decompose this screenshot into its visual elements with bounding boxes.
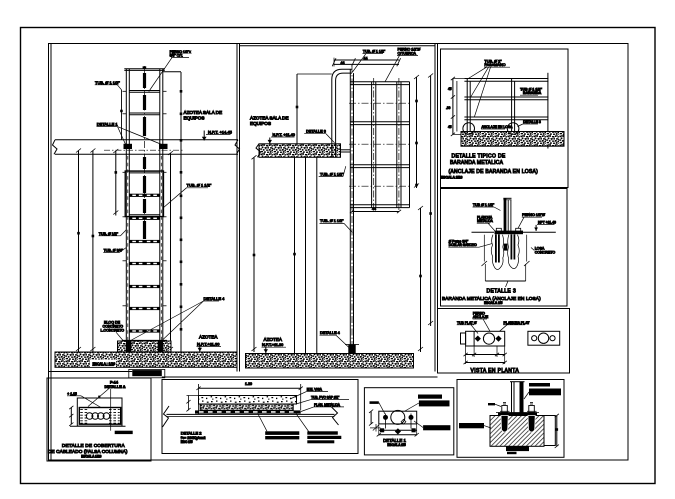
baranda post 1: [466, 79, 468, 132]
svg-text:C/TUERCA: C/TUERCA: [398, 51, 417, 55]
cables: [86, 413, 93, 420]
svg-text:1.20: 1.20: [245, 382, 252, 386]
steel deck band E: [195, 410, 301, 413]
dim bottom B: [485, 280, 525, 282]
box E frame: [162, 380, 358, 454]
svg-text:DETALLE 3: DETALLE 3: [306, 130, 326, 134]
svg-text:DOBLAR GANCHO: DOBLAR GANCHO: [449, 243, 478, 247]
svg-text:TUB Ø 1 1/2": TUB Ø 1 1/2": [473, 203, 495, 207]
base line D: [70, 425, 126, 427]
wall hatch left: [80, 410, 88, 424]
cover inner heavy rect: [79, 408, 120, 425]
grid vertical member 2: [396, 82, 398, 208]
ladder right rail: [159, 69, 161, 352]
svg-text:.90: .90: [446, 106, 451, 110]
svg-text:N.P.T.+11.30: N.P.T.+11.30: [197, 341, 220, 346]
baseplate B: [495, 231, 524, 235]
wall lines below slab: [294, 157, 296, 353]
dim x416: [416, 77, 418, 188]
baranda right end post: [547, 73, 549, 149]
svg-text:EQUIPOS: EQUIPOS: [250, 121, 271, 126]
MIDDLE PANEL: [240, 46, 436, 368]
clamp right: [159, 144, 168, 149]
scale note backing: [90, 360, 116, 368]
svg-text:TUB. Ø 1/2": TUB. Ø 1/2": [99, 232, 119, 236]
baranda rail 2: [464, 96, 548, 98]
svg-text:TUB. Ø 1 1/2": TUB. Ø 1 1/2": [95, 80, 120, 85]
box A frame: [441, 49, 569, 188]
label vol D: [115, 431, 133, 434]
svg-text:DETALLE Δ: DETALLE Δ: [105, 385, 126, 389]
elevacion title: [129, 369, 165, 377]
left bar G: [459, 423, 484, 428]
post B: [504, 199, 507, 232]
left dim of pipe: [296, 74, 298, 144]
bolt right G: [528, 416, 535, 433]
concrete plinth block: [118, 341, 172, 352]
dim line x170: [170, 153, 172, 352]
grout cone right: [508, 235, 517, 269]
level B: [535, 225, 537, 231]
right break E: [332, 407, 339, 425]
ladder rail vertical: [349, 69, 351, 353]
plate F: [379, 411, 417, 424]
svg-text:DETALLE 3: DETALLE 3: [487, 288, 517, 294]
ladder foot left: [126, 340, 131, 351]
svg-text:PLAN. METALICA: PLAN. METALICA: [314, 403, 341, 407]
box G frame: [457, 380, 564, 458]
baranda post 2: [511, 79, 513, 132]
rail foot: [348, 345, 355, 354]
rail centerline dash-dot: [351, 66, 353, 354]
concrete block G: [490, 416, 544, 447]
svg-text:45: 45: [448, 87, 452, 91]
panel divider left/middle: [236, 44, 238, 372]
nut right: [516, 228, 521, 231]
svg-text:TUB. PVC SAP Ø1": TUB. PVC SAP Ø1": [311, 396, 339, 400]
svg-text:N.P.T. +11.40: N.P.T. +11.40: [273, 133, 295, 137]
panel divider middle/right: [434, 44, 436, 372]
floor line B: [472, 231, 495, 233]
svg-text:EJE. VIGA: EJE. VIGA: [307, 388, 323, 392]
left dim x254: [253, 157, 255, 352]
svg-text:AZOTEA SALA DE: AZOTEA SALA DE: [184, 110, 223, 115]
bolt right: [510, 234, 512, 259]
slab top line: [55, 139, 238, 141]
center label bar E: [265, 431, 299, 435]
slab left break: [53, 140, 58, 155]
anchor circle 1: [463, 123, 475, 135]
horizontal divider above bottom row (right of title): [162, 376, 438, 378]
LEFT PANEL: [53, 50, 240, 378]
RIGHT COLUMN: [438, 49, 570, 374]
svg-text:ESCALA 1/10: ESCALA 1/10: [441, 176, 462, 180]
svg-text:ELEVACION: ELEVACION: [133, 371, 158, 376]
bottom concrete band: [55, 352, 237, 367]
center rod thick segments: [143, 73, 146, 239]
bottom band stipple: [246, 354, 414, 369]
pocket left wall: [483, 235, 485, 262]
svg-text:TUB. Ø 1 1/2": TUB. Ø 1 1/2": [187, 183, 212, 188]
svg-text:NPT +11.40: NPT +11.40: [538, 221, 556, 225]
slab left break: [256, 144, 261, 158]
grout cone left: [491, 235, 500, 270]
svg-text:ESCALA : 1/20: ESCALA : 1/20: [93, 362, 116, 366]
bolt left G: [501, 416, 508, 433]
middle panel top double line: [240, 45, 436, 47]
svg-text:TUB. Ø 1 1/2": TUB. Ø 1 1/2": [320, 219, 344, 223]
rungs: [125, 91, 163, 341]
slab right break: [235, 140, 240, 155]
dim blob between bolts: [504, 244, 508, 251]
box D frame: [47, 378, 151, 461]
support lines E: [167, 413, 335, 415]
foot base line: [122, 339, 167, 341]
grid rails horizontal: [350, 82, 409, 208]
svg-text:P-14: P-14: [110, 380, 119, 384]
dim line x119: [115, 151, 117, 216]
wall hatch right: [109, 410, 120, 424]
svg-text:TUB. Ø 1 1/2": TUB. Ø 1 1/2": [363, 50, 386, 54]
dim x420 lower: [420, 208, 422, 352]
right label bars E: [307, 431, 338, 434]
svg-text:DE CABLEADO (FALSA COLUMNA): DE CABLEADO (FALSA COLUMNA): [48, 449, 128, 454]
svg-text:TUB PLAT Ø: TUB PLAT Ø: [457, 321, 477, 325]
slab connector to rail: [341, 149, 351, 151]
grid vertical member 1: [371, 82, 373, 208]
bolt left: [495, 234, 497, 262]
svg-text:PERNO 1/2"Ø: PERNO 1/2"Ø: [522, 213, 545, 217]
svg-text:PLANCHA PLAT: PLANCHA PLAT: [504, 321, 531, 325]
svg-text:VISTA EN PLANTA: VISTA EN PLANTA: [471, 368, 520, 374]
nut left G: [502, 406, 508, 413]
dim chain x181: [180, 72, 182, 352]
svg-text:N.P.T. +14.45: N.P.T. +14.45: [208, 130, 233, 135]
svg-text:DETALLE 1: DETALLE 1: [97, 121, 119, 126]
slab stipple E fine: [200, 404, 293, 410]
svg-text:5/8" C/T.: 5/8" C/T.: [170, 54, 184, 58]
dim line x93: [92, 151, 94, 353]
left bracket dim E: [188, 396, 190, 411]
gooseneck pipe inner: [336, 73, 352, 157]
svg-text:TUB. Ø 1 1/2": TUB. Ø 1 1/2": [320, 173, 344, 177]
dim top E: [199, 387, 301, 389]
svg-text:ANCLAJE EN LOSA: ANCLAJE EN LOSA: [482, 125, 514, 129]
svg-text:ANCLAJE: ANCLAJE: [473, 315, 489, 319]
svg-text:BARANDA METALICA: BARANDA METALICA: [450, 160, 504, 166]
leader diagonal D: [88, 389, 109, 407]
plate plan right: [528, 331, 560, 345]
svg-text:ESCALA 1/5: ESCALA 1/5: [387, 443, 406, 447]
small bar G: [488, 403, 495, 405]
pocket right wall: [526, 235, 528, 262]
cover outer rect: [77, 398, 122, 426]
svg-text:N.P.T.+11.30: N.P.T.+11.30: [262, 343, 283, 347]
svg-text:(ANCLAJE DE BARANDA EN LOSA): (ANCLAJE DE BARANDA EN LOSA): [449, 169, 539, 175]
svg-text:DETALLE 4: DETALLE 4: [320, 331, 340, 335]
plate plan left: [466, 331, 505, 346]
svg-text:44: 44: [372, 207, 376, 211]
label bars F: [418, 395, 442, 399]
slab stipple E coarse: [199, 396, 297, 405]
nut right G: [529, 406, 535, 413]
baseplate G: [498, 413, 537, 416]
BOTTOM ROW: [47, 378, 564, 461]
ladder center rod dash-dot: [144, 66, 146, 243]
right dim G: [556, 416, 558, 447]
svg-text:DETALLE 3: DETALLE 3: [523, 120, 541, 124]
svg-text:DETALLE TIPICO DE: DETALLE TIPICO DE: [452, 154, 506, 160]
top bars G: [529, 383, 550, 387]
box C frame: [438, 309, 570, 374]
svg-text:ESC 1/5: ESC 1/5: [181, 440, 193, 444]
baranda rail 1: [464, 78, 548, 80]
dim 44 below grid: [352, 211, 399, 213]
gooseneck pipe outer: [332, 69, 352, 157]
svg-text:44: 44: [364, 56, 368, 60]
svg-text:ESCALA 1/5: ESCALA 1/5: [484, 301, 503, 305]
svg-text:AZOTEA SALA DE: AZOTEA SALA DE: [250, 115, 289, 120]
ladder top cap: [124, 68, 165, 70]
bottom bars G: [506, 446, 529, 451]
floor stipple band A: [461, 132, 564, 147]
dim line x78: [78, 151, 80, 353]
box F frame: [364, 388, 453, 455]
svg-text:AZOTEA: AZOTEA: [264, 337, 283, 342]
svg-text:METALICA: METALICA: [477, 219, 494, 223]
post G: [511, 382, 513, 413]
horizontal divider above bottom row (left of title): [49, 371, 133, 373]
svg-text:AZOTEA: AZOTEA: [199, 335, 218, 340]
top cap weld square: [143, 66, 147, 68]
level marker right NPT: [203, 131, 205, 141]
leader vertical D: [110, 389, 112, 431]
top dimension lines: [334, 59, 399, 61]
rail side tick marks: [123, 91, 167, 305]
baranda rail 3: [464, 116, 548, 118]
svg-text:DETALLE DE COBERTURA: DETALLE DE COBERTURA: [62, 443, 126, 448]
dim left A: [452, 79, 454, 135]
weld dot D: [98, 396, 100, 398]
svg-text:CONCRETO: CONCRETO: [535, 251, 556, 255]
dim left D: [70, 408, 72, 425]
inner border double left line: [50, 44, 52, 461]
svg-text:PASAMANO: PASAMANO: [484, 63, 505, 67]
slab centerline: [104, 149, 184, 151]
svg-text:DETALLE 4: DETALLE 4: [204, 296, 226, 301]
left dim F: [370, 411, 372, 424]
dim x430: [430, 76, 432, 327]
svg-text:44: 44: [341, 61, 345, 65]
bottom dims F: [378, 424, 380, 436]
left break E: [163, 406, 170, 427]
level NPT 11.40: [269, 138, 271, 144]
grid right end: [409, 82, 411, 208]
inner border: [49, 44, 629, 461]
dim extension top y72: [163, 71, 181, 73]
svg-text:EQUIPOS: EQUIPOS: [184, 115, 205, 120]
ladder left rail: [125, 69, 127, 352]
dims below plate C: [465, 346, 467, 364]
svg-text:BARANDA: BARANDA: [523, 91, 542, 95]
slab band stipple: [259, 144, 341, 158]
svg-text:ESCALA 1/10: ESCALA 1/10: [81, 455, 101, 459]
ladder foot right: [158, 340, 163, 351]
svg-text:45: 45: [448, 125, 452, 129]
nut left: [496, 228, 501, 231]
grid horizontal centerlines: [349, 102, 411, 104]
box B frame: [441, 189, 568, 307]
anchor circle 2: [507, 123, 519, 135]
slab bottom line: [55, 153, 238, 155]
clamp left: [124, 144, 133, 149]
svg-text:L.CONCRETO: L.CONCRETO: [101, 328, 125, 332]
svg-text:DETALLE 2: DETALLE 2: [181, 431, 203, 436]
svg-text:+ 1.15: + 1.15: [67, 392, 77, 396]
